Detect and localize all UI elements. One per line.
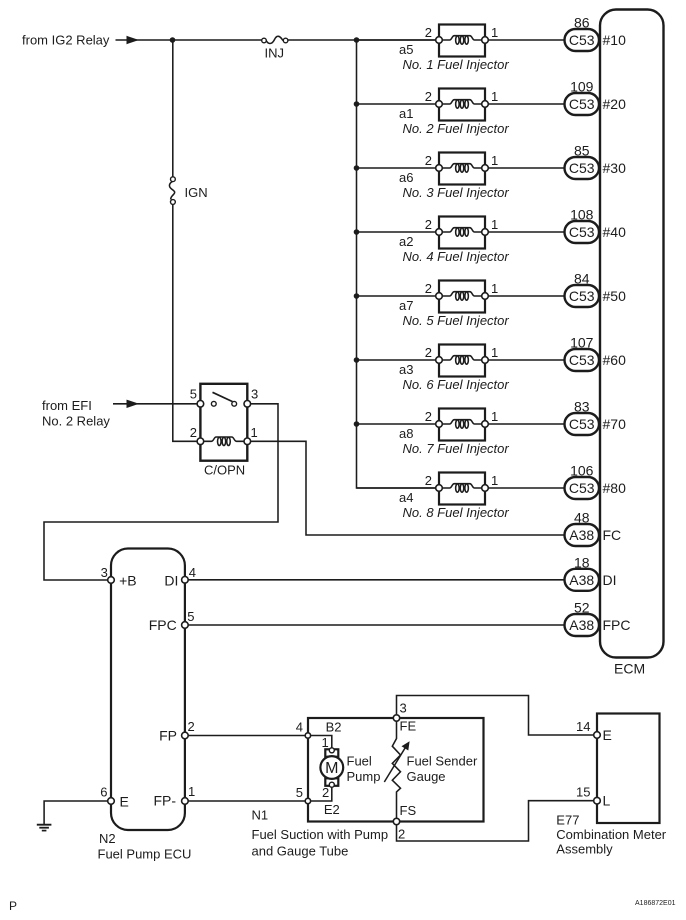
ground symbol xyxy=(37,825,52,831)
fuse IGN xyxy=(169,177,175,205)
svg-text:4: 4 xyxy=(189,565,196,580)
svg-text:108: 108 xyxy=(570,207,594,223)
wire: N2 FP- to N1 pin 5 xyxy=(185,800,308,802)
connector C53 pin 107 xyxy=(565,349,600,371)
svg-text:2: 2 xyxy=(425,25,432,40)
svg-text:2: 2 xyxy=(425,89,432,104)
svg-text:FPC: FPC xyxy=(603,617,631,633)
svg-text:IGN: IGN xyxy=(185,185,208,200)
svg-text:No. 1 Fuel Injector: No. 1 Fuel Injector xyxy=(403,57,510,72)
svg-text:106: 106 xyxy=(570,463,594,479)
wire: bus to injector a5 xyxy=(357,39,440,41)
connector A38 pin 48 (FC) xyxy=(565,524,600,546)
connector C53 pin 108 xyxy=(565,221,600,243)
svg-text:Fuel: Fuel xyxy=(347,754,372,769)
svg-text:and Gauge Tube: and Gauge Tube xyxy=(252,844,349,859)
svg-text:+B: +B xyxy=(119,573,137,589)
svg-text:2: 2 xyxy=(322,785,329,800)
assembly box N1 Fuel Suction with Pump and Gauge Tube xyxy=(308,718,484,822)
connector C53 pin 106 xyxy=(565,477,600,499)
junction: bus tap row 5 xyxy=(354,293,360,299)
svg-text:from EFI: from EFI xyxy=(42,398,92,413)
svg-text:a6: a6 xyxy=(399,170,413,185)
wire: bus to injector a4 xyxy=(357,487,440,489)
ECU box N2 Fuel Pump ECU xyxy=(108,549,189,831)
junction: bus tap row 1 xyxy=(354,37,360,43)
svg-text:M: M xyxy=(325,760,338,777)
svg-text:C53: C53 xyxy=(569,416,595,432)
svg-text:C53: C53 xyxy=(569,32,595,48)
fuel injector a1 (No. 2 Fuel Injector) xyxy=(436,89,489,121)
wire: IG2 feed to No.1 injector row xyxy=(116,39,438,41)
arrow on EFI feed wire xyxy=(127,400,140,408)
svg-text:DI: DI xyxy=(603,572,617,588)
svg-text:86: 86 xyxy=(574,15,590,31)
svg-text:3: 3 xyxy=(251,387,258,402)
svg-text:#10: #10 xyxy=(603,32,627,48)
svg-text:#80: #80 xyxy=(603,480,627,496)
svg-text:A38: A38 xyxy=(569,572,594,588)
svg-text:No. 7 Fuel Injector: No. 7 Fuel Injector xyxy=(403,441,510,456)
fuel injector a4 (No. 8 Fuel Injector) xyxy=(436,473,489,505)
wire: C/OPN pin 1 to ECM FC xyxy=(247,441,564,535)
svg-text:ECM: ECM xyxy=(614,661,645,677)
svg-text:Fuel Sender: Fuel Sender xyxy=(407,754,478,769)
svg-text:14: 14 xyxy=(576,719,590,734)
svg-text:C53: C53 xyxy=(569,480,595,496)
svg-text:4: 4 xyxy=(296,719,303,734)
svg-text:a2: a2 xyxy=(399,234,413,249)
svg-text:Fuel Suction with Pump: Fuel Suction with Pump xyxy=(252,827,389,842)
arrow on IG2 feed wire xyxy=(127,36,140,44)
svg-text:1: 1 xyxy=(491,281,498,296)
svg-text:85: 85 xyxy=(574,143,590,159)
svg-text:48: 48 xyxy=(574,510,590,526)
svg-text:No. 6 Fuel Injector: No. 6 Fuel Injector xyxy=(403,377,510,392)
fuel sender gauge (variable resistor) xyxy=(384,720,409,819)
svg-text:#70: #70 xyxy=(603,416,627,432)
svg-text:5: 5 xyxy=(190,387,197,402)
meter box E77 Combination Meter Assembly xyxy=(594,714,660,824)
svg-text:No. 2 Fuel Injector: No. 2 Fuel Injector xyxy=(403,121,510,136)
svg-text:No. 5 Fuel Injector: No. 5 Fuel Injector xyxy=(403,313,510,328)
svg-text:C53: C53 xyxy=(569,352,595,368)
svg-text:a3: a3 xyxy=(399,362,413,377)
svg-text:No. 4 Fuel Injector: No. 4 Fuel Injector xyxy=(403,249,510,264)
svg-text:a5: a5 xyxy=(399,42,413,57)
wire: N2 E to ground xyxy=(44,801,111,824)
wire: injector a1 to ECM #20 xyxy=(485,103,565,105)
svg-text:#60: #60 xyxy=(603,352,627,368)
wire: C/OPN pin 3 to N2 +B xyxy=(44,404,278,580)
ECU box ECM xyxy=(600,10,664,658)
svg-text:FE: FE xyxy=(400,719,417,734)
svg-text:1: 1 xyxy=(491,89,498,104)
svg-text:C53: C53 xyxy=(569,160,595,176)
svg-text:A186872E01: A186872E01 xyxy=(635,900,676,907)
svg-text:5: 5 xyxy=(187,609,194,624)
fuel injector a6 (No. 3 Fuel Injector) xyxy=(436,153,489,185)
fuel pump motor xyxy=(320,748,343,787)
svg-text:2: 2 xyxy=(425,409,432,424)
svg-text:a4: a4 xyxy=(399,490,413,505)
svg-text:A38: A38 xyxy=(569,527,594,543)
svg-text:1: 1 xyxy=(251,425,258,440)
fuel injector a3 (No. 6 Fuel Injector) xyxy=(436,345,489,377)
wire: bus to injector a7 xyxy=(357,295,440,297)
svg-text:18: 18 xyxy=(574,554,590,570)
svg-text:B2: B2 xyxy=(326,719,342,734)
wire: injector a4 to ECM #80 xyxy=(485,487,565,489)
wire: IGN branch vertical to C/OPN pin 2 xyxy=(173,40,201,441)
wire: FE to E77 E xyxy=(397,696,598,736)
wire: injector a6 to ECM #30 xyxy=(485,167,565,169)
svg-text:No. 8 Fuel Injector: No. 8 Fuel Injector xyxy=(403,505,510,520)
connector C53 pin 84 xyxy=(565,285,600,307)
wire: bus to injector a6 xyxy=(357,167,440,169)
svg-text:E77: E77 xyxy=(556,813,579,828)
wire: N2 DI to ECM DI xyxy=(185,579,565,581)
svg-text:C/OPN: C/OPN xyxy=(204,463,245,478)
wire: bus to injector a8 xyxy=(357,423,440,425)
svg-text:from IG2 Relay: from IG2 Relay xyxy=(22,33,110,48)
fuel injector a7 (No. 5 Fuel Injector) xyxy=(436,281,489,313)
svg-text:2: 2 xyxy=(425,345,432,360)
svg-text:1: 1 xyxy=(491,473,498,488)
svg-text:DI: DI xyxy=(164,573,178,589)
wire: FS to E77 L xyxy=(397,801,598,841)
connector C53 pin 85 xyxy=(565,157,600,179)
svg-text:L: L xyxy=(603,793,611,809)
junction: bus tap row 2 xyxy=(354,101,360,107)
svg-text:N2: N2 xyxy=(99,831,116,846)
wire: injector a8 to ECM #70 xyxy=(485,423,565,425)
wire: EFI feed to C/OPN pin 5 xyxy=(113,403,200,405)
junction: bus tap row 7 xyxy=(354,421,360,427)
junction: bus tap row 6 xyxy=(354,357,360,363)
svg-text:84: 84 xyxy=(574,271,590,287)
svg-text:No. 2 Relay: No. 2 Relay xyxy=(42,414,110,429)
svg-text:2: 2 xyxy=(188,719,195,734)
svg-text:1: 1 xyxy=(491,153,498,168)
connector A38 pin 18 (DI) xyxy=(565,569,600,591)
svg-text:Assembly: Assembly xyxy=(556,842,613,857)
node: from EFI No. 2 Relay label xyxy=(42,398,110,429)
wire: injector supply bus xyxy=(357,40,440,488)
svg-text:15: 15 xyxy=(576,785,590,800)
svg-text:2: 2 xyxy=(398,827,405,842)
svg-text:Fuel Pump ECU: Fuel Pump ECU xyxy=(98,847,192,862)
svg-text:2: 2 xyxy=(190,425,197,440)
wire: bus to injector a3 xyxy=(357,359,440,361)
wire: injector a5 to ECM #10 xyxy=(485,39,565,41)
svg-text:Gauge: Gauge xyxy=(407,769,446,784)
fuel injector a5 (No. 1 Fuel Injector) xyxy=(436,25,489,57)
svg-text:FP-: FP- xyxy=(153,793,176,809)
svg-text:P: P xyxy=(9,899,17,913)
svg-text:C53: C53 xyxy=(569,288,595,304)
label Fuel Sender Gauge xyxy=(407,754,478,785)
svg-text:5: 5 xyxy=(296,785,303,800)
svg-text:83: 83 xyxy=(574,399,590,415)
svg-text:1: 1 xyxy=(491,25,498,40)
wire: bus to injector a1 xyxy=(357,103,440,105)
label Fuel Pump xyxy=(347,754,381,785)
svg-text:a7: a7 xyxy=(399,298,413,313)
svg-text:E2: E2 xyxy=(324,802,340,817)
svg-text:107: 107 xyxy=(570,335,594,351)
svg-text:2: 2 xyxy=(425,281,432,296)
svg-text:E: E xyxy=(120,794,129,810)
connector A38 pin 52 (FPC) xyxy=(565,614,600,636)
junction: bus tap row 3 xyxy=(354,165,360,171)
wire: pin 4 to fuel pump xyxy=(308,736,332,750)
fuse INJ xyxy=(262,36,288,43)
svg-text:a8: a8 xyxy=(399,426,413,441)
relay C/OPN xyxy=(197,384,251,461)
svg-text:E: E xyxy=(603,727,612,743)
svg-text:INJ: INJ xyxy=(265,46,285,61)
svg-text:3: 3 xyxy=(400,701,407,716)
svg-text:6: 6 xyxy=(100,785,107,800)
wire: injector a7 to ECM #50 xyxy=(485,295,565,297)
svg-text:#50: #50 xyxy=(603,288,627,304)
fuel injector a8 (No. 7 Fuel Injector) xyxy=(436,409,489,441)
wire: injector a3 to ECM #60 xyxy=(485,359,565,361)
svg-text:1: 1 xyxy=(491,409,498,424)
svg-text:2: 2 xyxy=(425,153,432,168)
svg-text:2: 2 xyxy=(425,217,432,232)
svg-text:a1: a1 xyxy=(399,106,413,121)
svg-text:1: 1 xyxy=(491,217,498,232)
svg-text:#30: #30 xyxy=(603,160,627,176)
connector C53 pin 83 xyxy=(565,413,600,435)
wire: bus to injector a2 xyxy=(357,231,440,233)
wire: N2 FPC to ECM FPC xyxy=(185,624,565,626)
junction: IGN branch xyxy=(170,37,176,43)
svg-text:N1: N1 xyxy=(252,808,269,823)
svg-text:3: 3 xyxy=(101,565,108,580)
svg-text:No. 3 Fuel Injector: No. 3 Fuel Injector xyxy=(403,185,510,200)
svg-text:FC: FC xyxy=(603,527,622,543)
junction: bus tap row 4 xyxy=(354,229,360,235)
svg-text:FPC: FPC xyxy=(149,617,177,633)
connector C53 pin 109 xyxy=(565,93,600,115)
wire: injector a2 to ECM #40 xyxy=(485,231,565,233)
svg-text:C53: C53 xyxy=(569,224,595,240)
svg-text:FP: FP xyxy=(159,727,177,743)
wire: N2 FP to N1 pin 4 xyxy=(185,735,308,737)
svg-text:1: 1 xyxy=(322,735,329,750)
svg-text:Combination Meter: Combination Meter xyxy=(556,827,666,842)
svg-text:1: 1 xyxy=(491,345,498,360)
N1 pin circles xyxy=(305,715,400,825)
fuel injector a2 (No. 4 Fuel Injector) xyxy=(436,217,489,249)
connector C53 pin 86 xyxy=(565,29,600,51)
svg-text:1: 1 xyxy=(188,784,195,799)
svg-text:2: 2 xyxy=(425,473,432,488)
svg-text:A38: A38 xyxy=(569,617,594,633)
svg-text:Pump: Pump xyxy=(347,769,381,784)
svg-text:C53: C53 xyxy=(569,96,595,112)
svg-text:FS: FS xyxy=(400,803,417,818)
wire: fuel pump to pin 5 xyxy=(308,786,332,801)
svg-text:#40: #40 xyxy=(603,224,627,240)
svg-text:52: 52 xyxy=(574,600,590,616)
svg-text:#20: #20 xyxy=(603,96,627,112)
svg-text:109: 109 xyxy=(570,79,594,95)
